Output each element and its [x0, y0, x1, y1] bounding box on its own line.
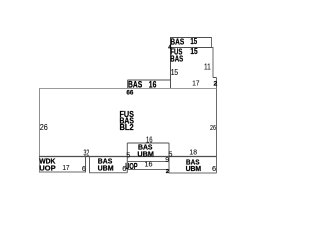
- wire: box D right wall and box E left wall: [168, 143, 170, 173]
- wire: WDK/UOP box right wall: [85, 157, 87, 173]
- svg-text:66: 66: [126, 89, 133, 96]
- wire: box C left wall: [89, 157, 91, 173]
- svg-text:BAS: BAS: [170, 54, 183, 64]
- svg-text:11: 11: [204, 62, 211, 71]
- svg-text:BAS: BAS: [170, 37, 184, 46]
- svg-text:2: 2: [166, 169, 169, 175]
- wire: box B jog horizontal: [213, 77, 217, 79]
- svg-text:17: 17: [192, 78, 199, 87]
- wire: box C bottom wall: [89, 172, 127, 174]
- svg-text:6: 6: [82, 164, 86, 173]
- wire: box D top wall: [127, 142, 169, 144]
- wire: box A and box B left wall: [170, 37, 172, 88]
- wire: box E bottom wall: [169, 172, 217, 174]
- svg-text:18: 18: [189, 148, 197, 157]
- svg-text:5: 5: [126, 150, 130, 159]
- wire: box F left wall: [127, 80, 129, 88]
- svg-text:15: 15: [171, 68, 179, 77]
- svg-text:BAS: BAS: [128, 79, 142, 89]
- wire: UOP strip top wall: [127, 161, 169, 163]
- wire: box B right wall upper: [212, 47, 214, 78]
- wire: main box bottom wall: [39, 156, 217, 158]
- wire: right wall from jog down through main box to box E bottom: [216, 78, 218, 174]
- wire: box C right wall and box D left wall: [126, 143, 128, 173]
- svg-text:26: 26: [40, 123, 48, 132]
- wire: main box left wall and WDK left wall: [39, 89, 41, 173]
- svg-text:6: 6: [212, 164, 216, 173]
- wire: box A (BAS 15) top wall: [170, 37, 212, 39]
- wire: box F (BAS 16) top wall: [128, 79, 171, 81]
- svg-text:UBM: UBM: [98, 164, 114, 173]
- wire: WDK/UOP box bottom wall: [39, 171, 86, 173]
- svg-text:15: 15: [190, 37, 197, 46]
- svg-text:UBM: UBM: [137, 149, 154, 158]
- wire: box A right wall: [211, 37, 213, 48]
- svg-text:16: 16: [149, 79, 157, 89]
- svg-text:UOP: UOP: [125, 162, 138, 171]
- svg-text:16: 16: [145, 159, 153, 168]
- svg-text:17: 17: [63, 163, 70, 172]
- wire: main box top wall: [39, 88, 217, 90]
- wire: UOP strip bottom wall: [127, 169, 169, 171]
- svg-text:32: 32: [84, 148, 90, 157]
- svg-text:2: 2: [214, 80, 218, 87]
- wire: box A / box B divider: [170, 47, 213, 49]
- svg-text:15: 15: [190, 47, 198, 56]
- svg-text:26: 26: [210, 123, 216, 132]
- svg-text:BL2: BL2: [120, 123, 135, 132]
- svg-text:UOP: UOP: [39, 163, 56, 172]
- svg-text:9: 9: [165, 157, 169, 164]
- svg-text:UBM: UBM: [186, 164, 202, 173]
